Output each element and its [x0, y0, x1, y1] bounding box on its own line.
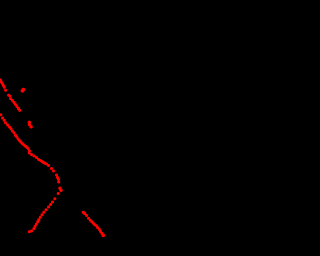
- dotted chain A (upper-left diagonal): [0, 79, 21, 112]
- dotted curve B (big right-bulging arc): [0, 113, 63, 233]
- isolated dot D1: [21, 88, 26, 93]
- dotted line C (lower straight diagonal): [82, 211, 105, 237]
- dot cluster D2: [28, 121, 33, 129]
